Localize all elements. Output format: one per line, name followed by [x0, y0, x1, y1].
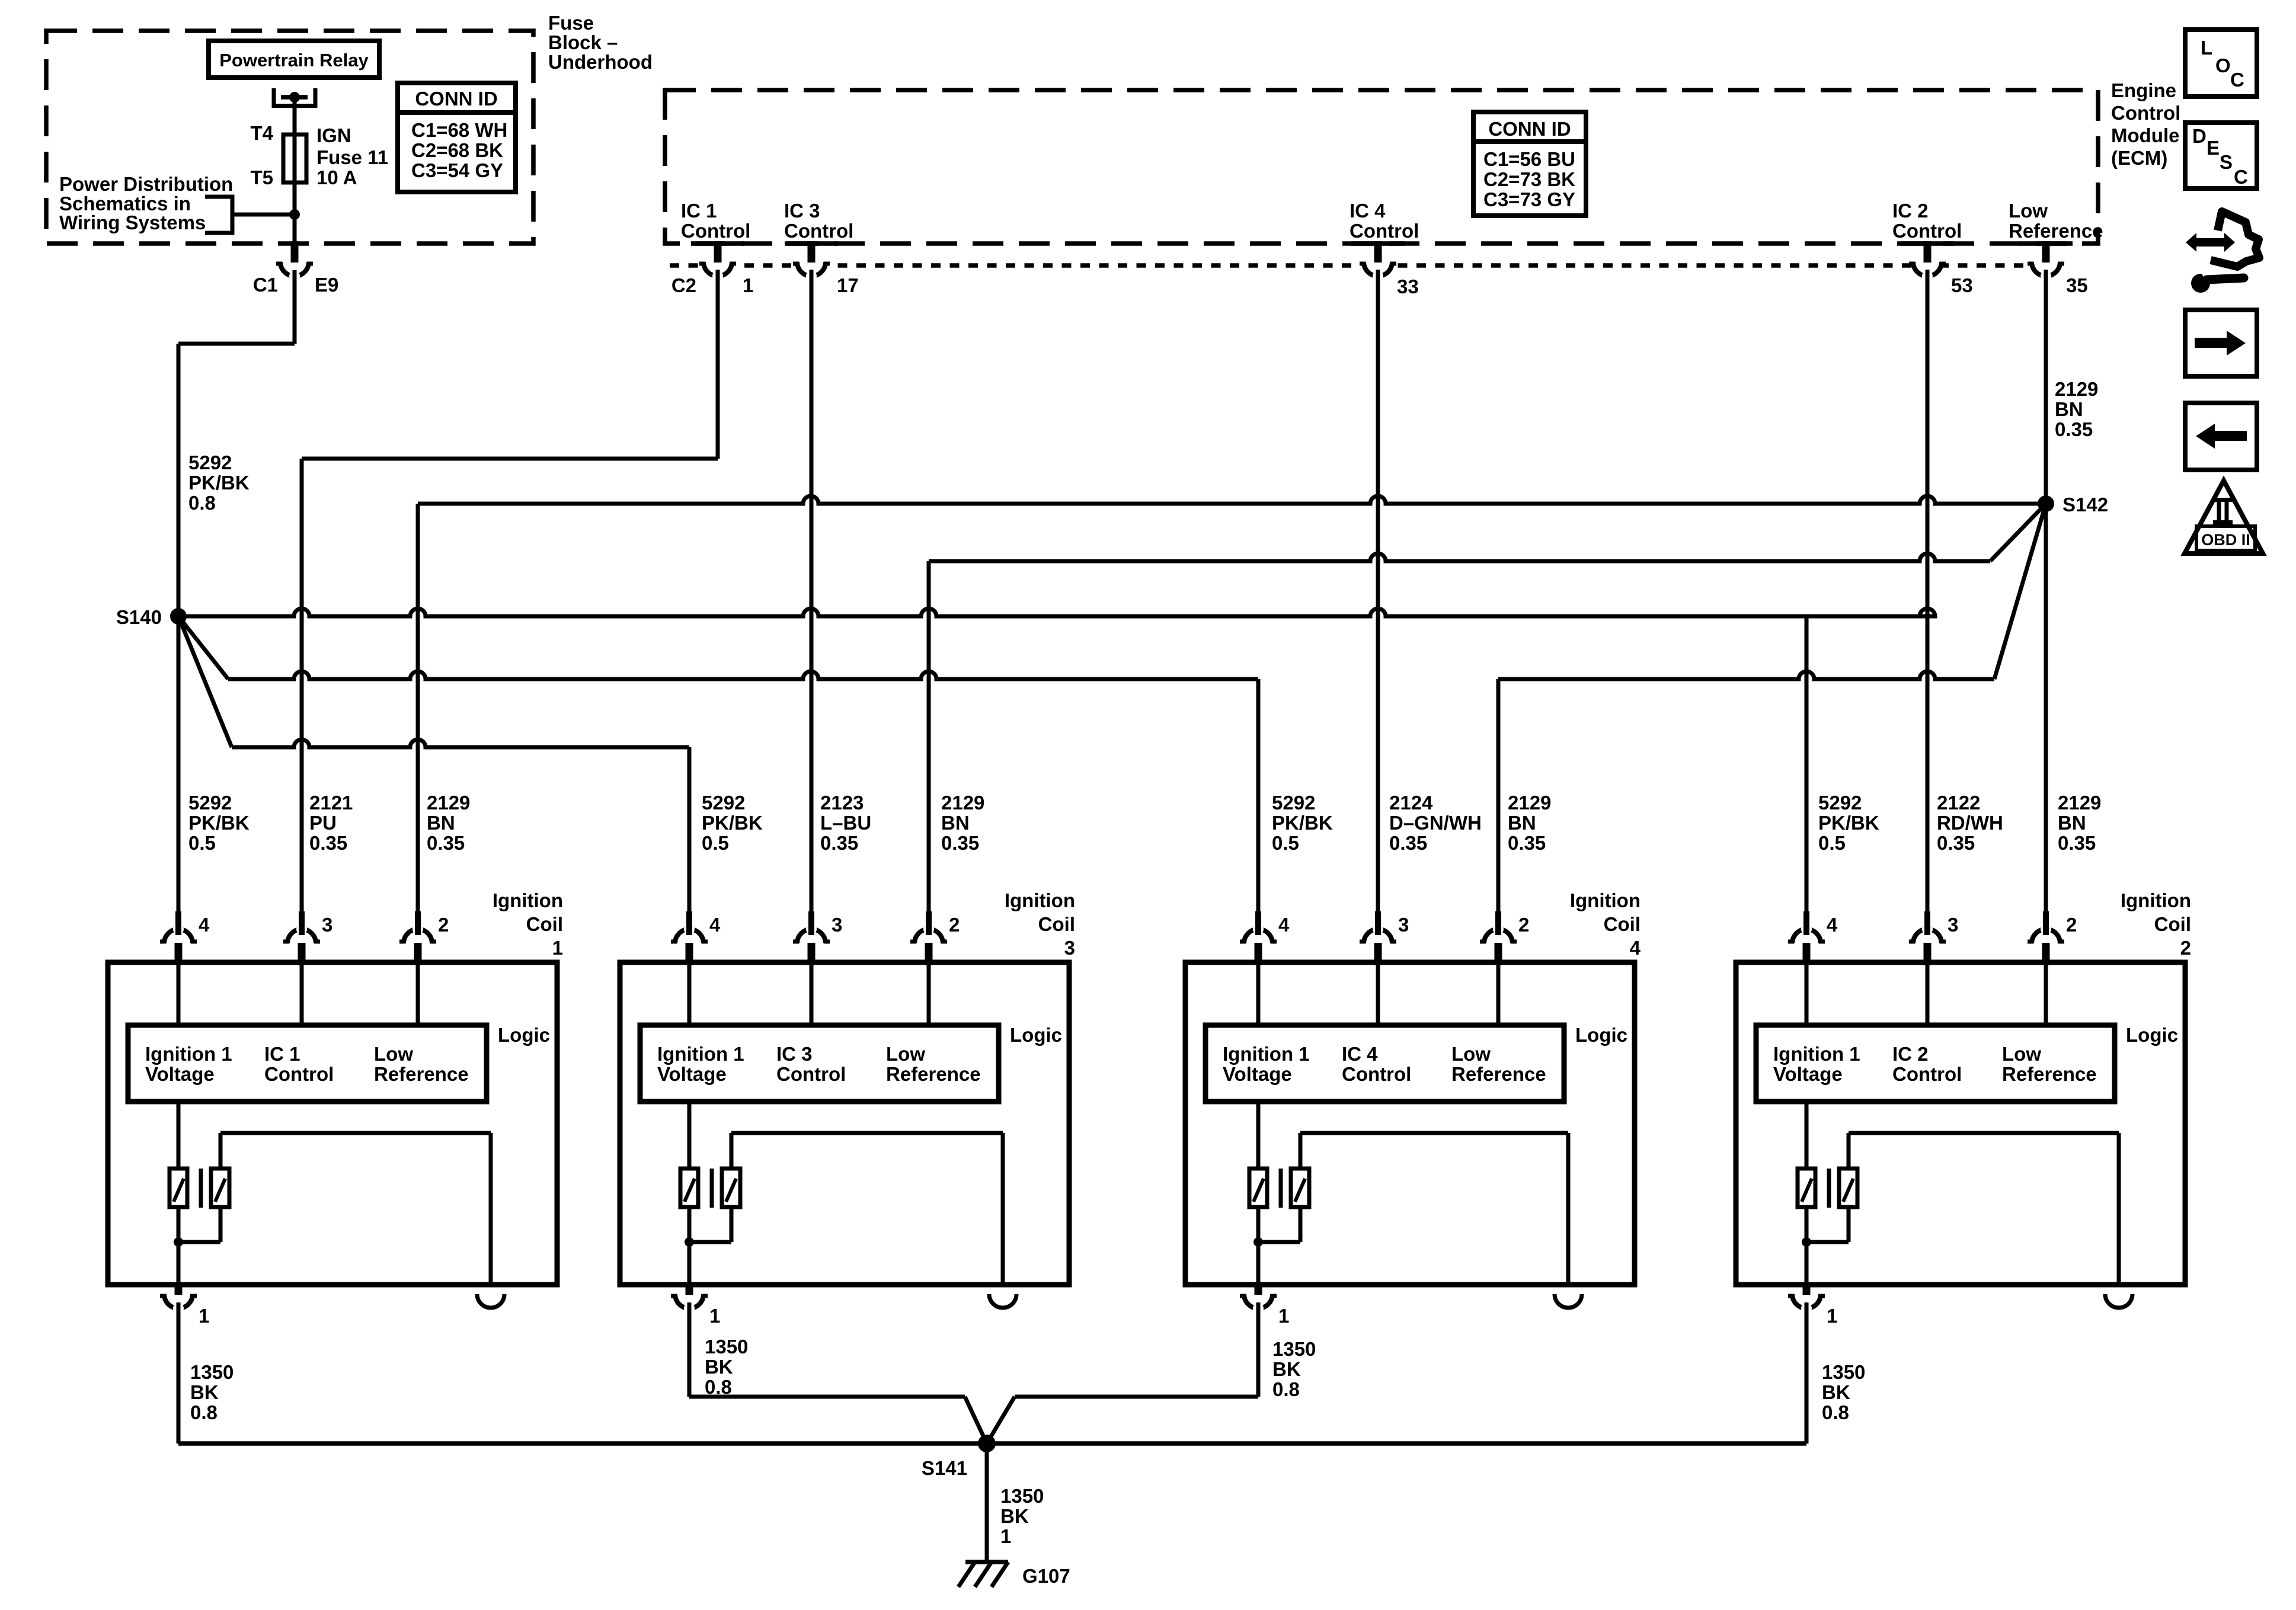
svg-text:Ignition 1: Ignition 1	[145, 1043, 232, 1065]
svg-text:Wiring Systems: Wiring Systems	[59, 212, 206, 233]
svg-text:5292: 5292	[1818, 792, 1862, 814]
svg-text:Reference: Reference	[2009, 220, 2103, 242]
svg-text:Low: Low	[1451, 1043, 1491, 1065]
svg-text:OBD II: OBD II	[2201, 531, 2250, 549]
svg-text:4: 4	[1278, 914, 1290, 936]
svg-text:PK/BK: PK/BK	[1272, 812, 1333, 834]
svg-text:T5: T5	[250, 167, 273, 188]
svg-text:0.35: 0.35	[427, 832, 465, 854]
svg-text:2: 2	[2066, 914, 2077, 936]
svg-text:Control: Control	[776, 1063, 846, 1085]
svg-text:BK: BK	[1000, 1505, 1029, 1527]
svg-text:RD/WH: RD/WH	[1937, 812, 2003, 834]
svg-text:4: 4	[709, 914, 721, 936]
svg-text:E9: E9	[315, 274, 338, 296]
svg-text:L: L	[2201, 37, 2212, 59]
svg-text:0.35: 0.35	[941, 832, 979, 854]
svg-text:5292: 5292	[188, 452, 232, 473]
svg-text:35: 35	[2066, 274, 2088, 296]
svg-text:Powertrain Relay: Powertrain Relay	[219, 50, 369, 71]
svg-text:Power Distribution: Power Distribution	[59, 173, 233, 195]
svg-text:1350: 1350	[1000, 1485, 1044, 1507]
svg-text:Voltage: Voltage	[1773, 1063, 1843, 1085]
svg-text:1350: 1350	[1272, 1338, 1316, 1360]
svg-text:BN: BN	[941, 812, 970, 834]
svg-text:0.35: 0.35	[1389, 832, 1427, 854]
svg-text:Engine: Engine	[2111, 79, 2176, 101]
svg-text:BK: BK	[705, 1356, 733, 1378]
svg-text:PK/BK: PK/BK	[188, 472, 250, 494]
svg-text:PK/BK: PK/BK	[188, 812, 250, 834]
svg-text:4: 4	[199, 914, 210, 936]
svg-text:2124: 2124	[1389, 792, 1433, 814]
svg-text:0.8: 0.8	[188, 492, 216, 514]
svg-text:IC 2: IC 2	[1892, 1043, 1929, 1065]
svg-text:3: 3	[1064, 937, 1075, 959]
svg-text:1: 1	[1000, 1525, 1011, 1547]
svg-text:E: E	[2207, 137, 2220, 159]
svg-text:PK/BK: PK/BK	[702, 812, 763, 834]
svg-text:2129: 2129	[941, 792, 984, 814]
svg-text:2: 2	[438, 914, 449, 936]
svg-text:S141: S141	[922, 1457, 967, 1479]
svg-text:3: 3	[1398, 914, 1409, 936]
svg-text:53: 53	[1951, 274, 1973, 296]
svg-text:Control: Control	[681, 220, 750, 242]
svg-text:Ignition: Ignition	[2121, 889, 2191, 911]
svg-text:4: 4	[1630, 937, 1641, 959]
svg-text:1: 1	[1827, 1305, 1837, 1327]
svg-text:C3=54 GY: C3=54 GY	[411, 159, 503, 181]
svg-text:Logic: Logic	[1575, 1024, 1627, 1046]
svg-text:Ignition 1: Ignition 1	[1773, 1043, 1860, 1065]
svg-text:0.8: 0.8	[705, 1376, 732, 1398]
svg-text:0.35: 0.35	[2058, 832, 2096, 854]
svg-text:BK: BK	[1822, 1381, 1850, 1403]
svg-text:BN: BN	[2058, 812, 2086, 834]
svg-text:0.35: 0.35	[1937, 832, 1975, 854]
svg-text:2122: 2122	[1937, 792, 1980, 814]
svg-text:Underhood: Underhood	[548, 51, 653, 73]
svg-text:17: 17	[837, 274, 859, 296]
svg-text:2: 2	[949, 914, 960, 936]
svg-text:Low: Low	[886, 1043, 925, 1065]
svg-text:Reference: Reference	[886, 1063, 981, 1085]
svg-text:Control: Control	[1350, 220, 1419, 242]
svg-text:Control: Control	[784, 220, 853, 242]
svg-text:Reference: Reference	[374, 1063, 469, 1085]
svg-text:2: 2	[2180, 937, 2191, 959]
svg-text:0.35: 0.35	[309, 832, 347, 854]
svg-text:S: S	[2220, 151, 2233, 173]
svg-text:Coil: Coil	[526, 913, 563, 935]
svg-text:5292: 5292	[1272, 792, 1315, 814]
svg-text:1: 1	[552, 937, 563, 959]
svg-text:Coil: Coil	[1604, 913, 1641, 935]
svg-text:S140: S140	[116, 606, 162, 628]
svg-text:Coil: Coil	[2154, 913, 2191, 935]
svg-text:G107: G107	[1022, 1565, 1070, 1587]
svg-text:D–GN/WH: D–GN/WH	[1389, 812, 1482, 834]
svg-text:1: 1	[709, 1305, 720, 1327]
svg-text:Voltage: Voltage	[145, 1063, 215, 1085]
svg-text:C1=56 BU: C1=56 BU	[1483, 148, 1575, 170]
svg-text:1: 1	[199, 1305, 209, 1327]
svg-text:O: O	[2215, 55, 2231, 76]
svg-text:Module: Module	[2111, 124, 2179, 146]
svg-text:0.35: 0.35	[820, 832, 858, 854]
svg-text:Ignition: Ignition	[493, 889, 563, 911]
svg-text:BK: BK	[1272, 1358, 1301, 1380]
svg-text:Control: Control	[1892, 220, 1962, 242]
svg-text:Fuse 11: Fuse 11	[316, 146, 388, 168]
svg-text:0.8: 0.8	[1822, 1401, 1849, 1423]
svg-text:C3=73 GY: C3=73 GY	[1483, 188, 1575, 210]
svg-text:3: 3	[1948, 914, 1958, 936]
svg-text:5292: 5292	[188, 792, 232, 814]
svg-text:C: C	[2234, 166, 2248, 188]
svg-text:Low: Low	[2009, 200, 2048, 222]
svg-text:C2=73 BK: C2=73 BK	[1483, 168, 1575, 190]
svg-text:BK: BK	[190, 1381, 219, 1403]
svg-text:Coil: Coil	[1038, 913, 1075, 935]
svg-text:3: 3	[322, 914, 332, 936]
svg-text:S142: S142	[2062, 494, 2108, 516]
svg-text:IGN: IGN	[316, 124, 351, 146]
svg-text:IC 4: IC 4	[1342, 1043, 1378, 1065]
svg-text:2123: 2123	[820, 792, 864, 814]
svg-text:2129: 2129	[2055, 378, 2098, 400]
svg-text:Reference: Reference	[2002, 1063, 2097, 1085]
svg-text:1: 1	[743, 274, 753, 296]
svg-text:C2: C2	[671, 274, 696, 296]
svg-text:CONN ID: CONN ID	[1488, 118, 1571, 140]
svg-text:0.5: 0.5	[1272, 832, 1299, 854]
svg-text:IC 1: IC 1	[264, 1043, 300, 1065]
svg-text:L–BU: L–BU	[820, 812, 871, 834]
svg-text:D: D	[2192, 125, 2207, 147]
svg-text:33: 33	[1397, 276, 1419, 297]
svg-text:T4: T4	[250, 122, 273, 144]
svg-text:Ignition 1: Ignition 1	[657, 1043, 744, 1065]
svg-text:Logic: Logic	[498, 1024, 550, 1046]
svg-text:C1: C1	[253, 274, 278, 296]
svg-text:Control: Control	[1892, 1063, 1962, 1085]
svg-text:5292: 5292	[702, 792, 745, 814]
svg-text:2121: 2121	[309, 792, 353, 814]
svg-text:Ignition 1: Ignition 1	[1223, 1043, 1310, 1065]
svg-text:Ignition: Ignition	[1005, 889, 1075, 911]
svg-text:0.5: 0.5	[1818, 832, 1846, 854]
svg-text:IC 4: IC 4	[1350, 200, 1386, 222]
svg-text:Control: Control	[2111, 102, 2180, 124]
svg-text:BN: BN	[427, 812, 455, 834]
svg-text:IC 3: IC 3	[776, 1043, 813, 1065]
svg-text:Reference: Reference	[1451, 1063, 1546, 1085]
svg-text:BN: BN	[2055, 398, 2083, 420]
svg-text:CONN ID: CONN ID	[415, 88, 497, 110]
svg-text:Voltage: Voltage	[657, 1063, 727, 1085]
svg-text:0.5: 0.5	[702, 832, 729, 854]
svg-text:IC 3: IC 3	[784, 200, 820, 222]
svg-text:IC 1: IC 1	[681, 200, 717, 222]
svg-text:1350: 1350	[705, 1336, 748, 1358]
svg-text:1: 1	[1278, 1305, 1289, 1327]
svg-text:Control: Control	[264, 1063, 334, 1085]
svg-text:Low: Low	[2002, 1043, 2041, 1065]
svg-text:0.35: 0.35	[1508, 832, 1546, 854]
svg-text:Low: Low	[374, 1043, 413, 1065]
svg-text:2129: 2129	[427, 792, 470, 814]
svg-text:Logic: Logic	[2126, 1024, 2178, 1046]
svg-text:0.8: 0.8	[1272, 1378, 1300, 1400]
svg-text:Control: Control	[1342, 1063, 1411, 1085]
svg-text:PU: PU	[309, 812, 337, 834]
svg-text:1350: 1350	[1822, 1361, 1865, 1383]
svg-text:C: C	[2230, 69, 2244, 91]
svg-text:0.5: 0.5	[188, 832, 216, 854]
svg-text:0.8: 0.8	[190, 1401, 218, 1423]
svg-text:PK/BK: PK/BK	[1818, 812, 1879, 834]
svg-text:C1=68 WH: C1=68 WH	[411, 119, 507, 141]
svg-text:1350: 1350	[190, 1361, 234, 1383]
svg-text:BN: BN	[1508, 812, 1536, 834]
svg-text:2: 2	[1518, 914, 1529, 936]
svg-text:C2=68 BK: C2=68 BK	[411, 139, 503, 161]
svg-text:4: 4	[1827, 914, 1838, 936]
svg-text:Fuse: Fuse	[548, 12, 594, 34]
svg-text:Logic: Logic	[1010, 1024, 1062, 1046]
svg-text:Ignition: Ignition	[1570, 889, 1641, 911]
svg-text:10 A: 10 A	[316, 167, 357, 188]
svg-text:Block –: Block –	[548, 31, 618, 53]
svg-text:3: 3	[832, 914, 842, 936]
svg-text:2129: 2129	[2058, 792, 2101, 814]
svg-text:2129: 2129	[1508, 792, 1551, 814]
svg-text:Voltage: Voltage	[1223, 1063, 1292, 1085]
svg-text:(ECM): (ECM)	[2111, 147, 2167, 169]
svg-text:0.35: 0.35	[2055, 418, 2093, 440]
svg-text:IC 2: IC 2	[1892, 200, 1929, 222]
